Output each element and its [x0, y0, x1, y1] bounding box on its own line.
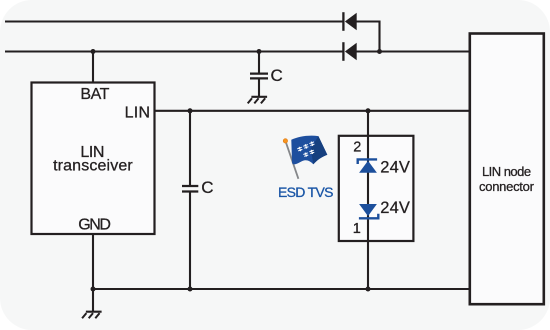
wire VSUP top line [5, 20, 343, 22]
svg-text:connector: connector [479, 179, 535, 194]
wire VBAT to capacitor C1 [258, 52, 260, 73]
wire from D2 anode to connector [357, 50, 470, 52]
wire TVS vertical branch [367, 111, 369, 289]
svg-text:transceiver: transceiver [53, 158, 133, 175]
svg-text:2: 2 [353, 140, 361, 156]
svg-text:LIN: LIN [125, 104, 151, 121]
flagpole ball [283, 139, 287, 143]
flag banner [291, 136, 327, 165]
junction dot C2 ground [188, 287, 193, 292]
junction dot TVS branch [366, 108, 371, 113]
diode D2 [343, 42, 356, 61]
TVS suppressor box [339, 136, 414, 241]
svg-text:GND: GND [78, 217, 111, 234]
wire C1 to ground [258, 79, 260, 96]
svg-text:BAT: BAT [80, 86, 109, 103]
wire VBAT second line [5, 50, 343, 52]
junction dot GND branch [91, 287, 96, 292]
svg-text:C: C [201, 178, 213, 197]
LIN transceiver U1 box [32, 83, 155, 235]
brand flag logo [283, 136, 327, 179]
svg-text:LIN node: LIN node [482, 164, 531, 179]
svg-text:C: C [271, 66, 283, 85]
wire from D1 anode down to VBAT line [357, 22, 380, 52]
TVS zener Z1 (bottom, cathode down) [359, 204, 378, 218]
capacitor C1 [250, 74, 268, 79]
svg-text:24V: 24V [380, 199, 410, 217]
svg-text:1: 1 [353, 221, 361, 237]
diode D1 [343, 12, 356, 31]
label LIN node connector [479, 164, 535, 194]
LIN node connector J1 box [470, 34, 544, 305]
junction dot BAT branch [91, 49, 96, 54]
wire LIN to capacitor C2 [189, 111, 191, 185]
wire GND pin drop [92, 234, 94, 311]
TVS zener Z2 (top, cathode up) [358, 159, 377, 172]
junction dot TVS ground [366, 287, 371, 292]
flagpole [286, 142, 299, 179]
svg-text:ESD TVS: ESD TVS [278, 184, 334, 200]
wire C2 to ground bus [189, 193, 191, 290]
junction dot C1 branch [257, 49, 262, 54]
label LIN transceiver [53, 144, 133, 175]
wire LIN bus from transceiver to connector [155, 110, 469, 112]
ground symbol main [82, 312, 102, 319]
svg-text:24V: 24V [380, 159, 410, 177]
flag glyphs [297, 141, 318, 159]
wire ground bus [93, 288, 469, 290]
ground symbol at C1 [248, 97, 267, 104]
wire BAT pin drop [92, 52, 94, 83]
capacitor C2 [182, 186, 198, 192]
junction dot D1/D2 anodes [377, 49, 382, 54]
junction dot C2 branch [188, 108, 193, 113]
